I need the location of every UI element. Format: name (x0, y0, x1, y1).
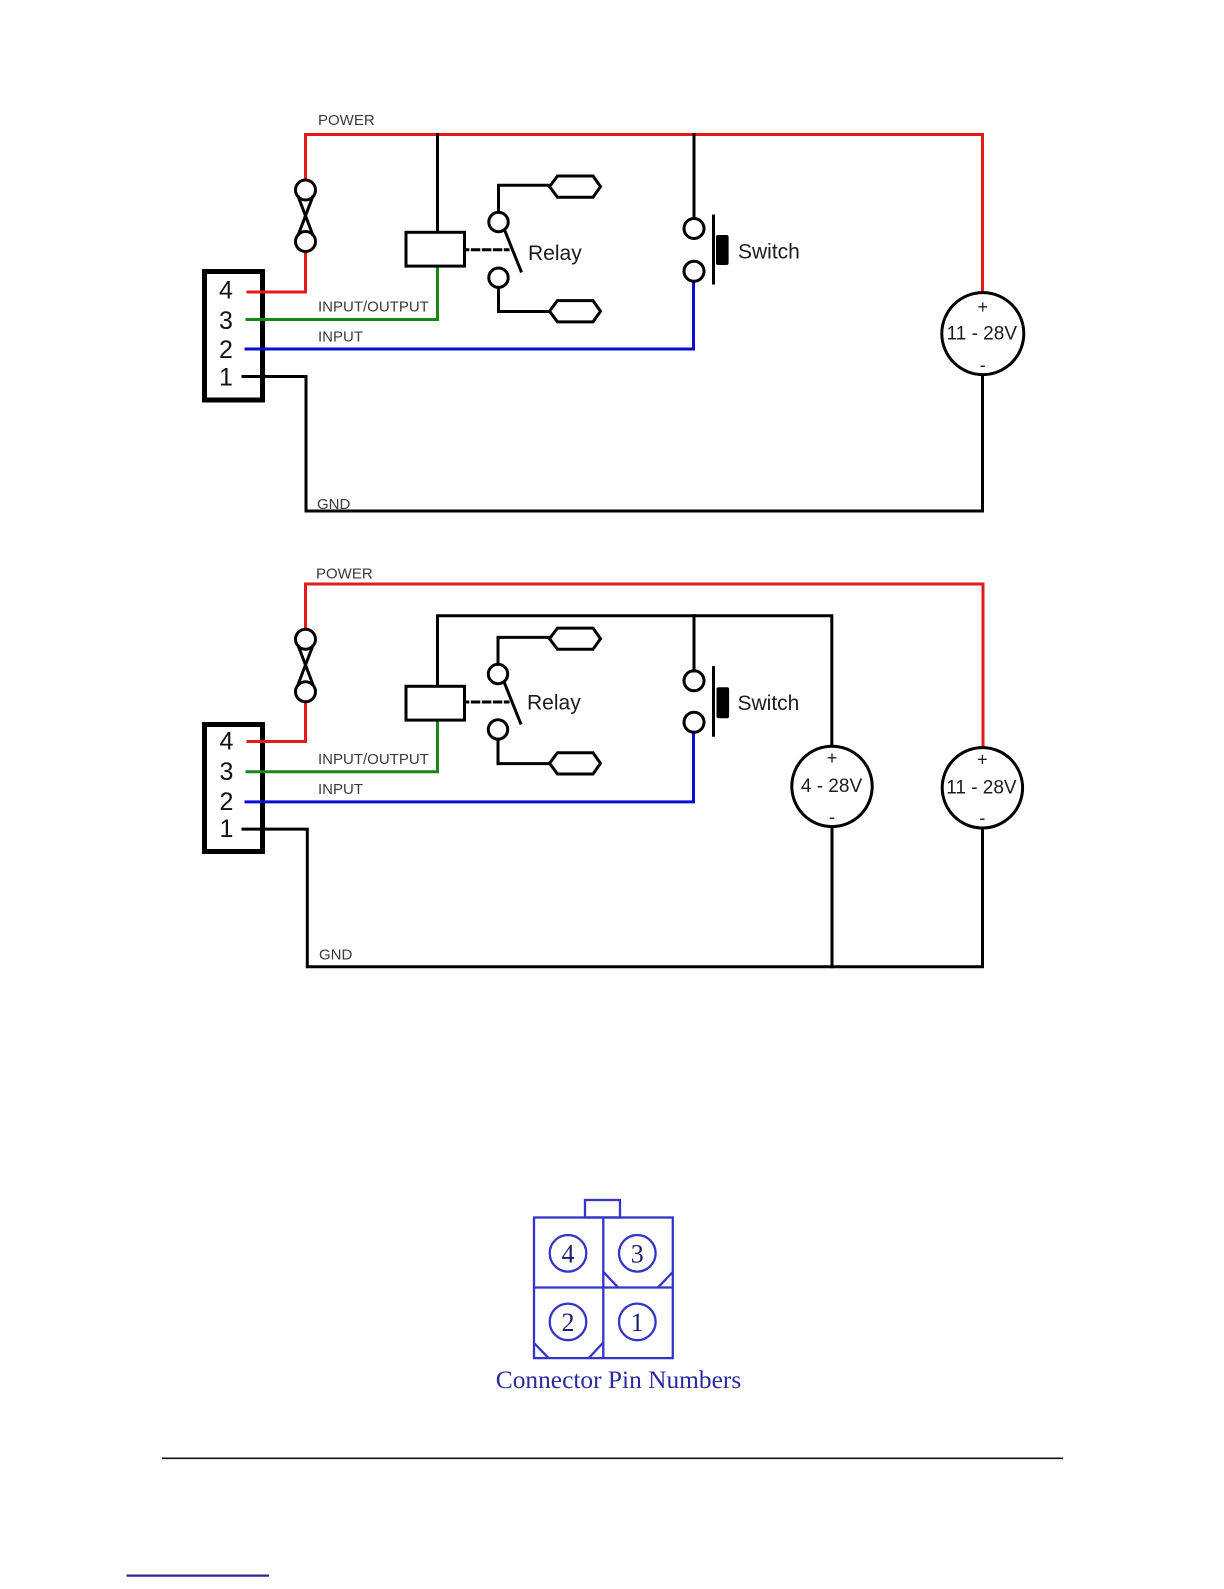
fuse F1 (296, 180, 316, 252)
pin 4 cavity circle (550, 1235, 587, 1272)
relay K2 contacts (488, 664, 520, 739)
wire relay NO contact to terminal d1 (499, 185, 550, 212)
connector face divider horizontal (534, 1286, 673, 1288)
switch S2 plunger (712, 668, 715, 736)
svg-text:2: 2 (562, 1308, 575, 1337)
wire input/output pin3 to coil (green) (247, 266, 438, 319)
switch S1 plunger d1 (712, 216, 715, 283)
wire pin4 to fuse (red) (248, 252, 306, 292)
svg-text:1: 1 (219, 364, 233, 392)
switch S2 contacts (684, 671, 704, 733)
fuse F2 (296, 629, 316, 702)
svg-text:Connector Pin Numbers: Connector Pin Numbers (496, 1366, 741, 1394)
svg-text:INPUT/OUTPUT: INPUT/OUTPUT (318, 751, 429, 768)
supply B1 11-28V d1 (942, 293, 1024, 375)
wire input pin2 to switch (blue) (246, 282, 694, 350)
wire pin1 / GND / supply return d1 (black) (243, 375, 983, 511)
connector J2 body (205, 725, 263, 852)
wire pin4 to fuse d2 (red) (248, 702, 306, 742)
wire 4-28V return d2 (black) (831, 827, 834, 967)
supply B2 4-28V (792, 746, 872, 826)
wire local bus d2 (black): coil drop, bus, drop to 4-28V (438, 616, 832, 747)
svg-text:2: 2 (220, 788, 234, 816)
svg-text:4 - 28V: 4 - 28V (801, 776, 863, 797)
svg-text:+: + (978, 297, 989, 317)
svg-text:Relay: Relay (528, 242, 582, 265)
pin 1 cavity circle (619, 1304, 656, 1341)
svg-text:2: 2 (219, 336, 233, 364)
connector face outline (534, 1218, 673, 1359)
svg-text:GND: GND (317, 496, 351, 513)
connector key tab (585, 1200, 620, 1218)
wire fuse to POWER (red) (304, 135, 307, 181)
terminal lug lower d1 (550, 301, 601, 322)
connector J1 body d1 (205, 272, 263, 401)
svg-text:3: 3 (631, 1240, 644, 1269)
svg-text:INPUT: INPUT (318, 781, 363, 798)
keying chamfer pin3 left (603, 1272, 618, 1288)
svg-text:+: + (827, 748, 838, 768)
pin 2 cavity circle (550, 1304, 587, 1341)
switch S1 contacts d1 (684, 219, 704, 282)
svg-text:INPUT: INPUT (318, 329, 363, 346)
pin 3 cavity circle (619, 1235, 656, 1272)
wire coil drop d1 (black) (436, 135, 439, 233)
keying chamfer pin3 right (658, 1272, 673, 1287)
terminal lug upper d1 (550, 176, 601, 197)
svg-text:-: - (829, 807, 835, 827)
svg-text:11 - 28V: 11 - 28V (947, 324, 1018, 345)
supply B3 11-28V d2 (942, 748, 1022, 828)
svg-text:+: + (977, 750, 988, 770)
svg-text:Relay: Relay (527, 692, 581, 715)
wire pin1 / GND / supply return d2 (black) (243, 828, 983, 967)
wire relay common contact to terminal d1 (499, 287, 550, 311)
svg-text:11 - 28V: 11 - 28V (946, 778, 1017, 799)
relay K2 linkage (dashed) (465, 701, 508, 704)
svg-text:Switch: Switch (738, 241, 800, 264)
footnote rule (blue) (127, 1574, 270, 1576)
svg-text:3: 3 (220, 758, 234, 786)
relay K1 coil d1 (406, 232, 465, 266)
wire input pin2 to switch d2 (blue) (246, 732, 694, 802)
wire switch drop d2 (black) (693, 616, 696, 671)
svg-text:INPUT/OUTPUT: INPUT/OUTPUT (318, 299, 429, 316)
svg-text:3: 3 (219, 307, 233, 335)
wire input/output pin3 to coil d2 (green) (247, 720, 438, 772)
connector face divider vertical (602, 1218, 604, 1359)
wire relay NO contact to terminal d2 (498, 637, 550, 664)
wire POWER net d2 (red) (306, 584, 984, 748)
switch S2 button (717, 687, 730, 718)
terminal lug upper d2 (550, 628, 601, 649)
svg-text:4: 4 (562, 1240, 575, 1269)
svg-text:POWER: POWER (318, 112, 375, 129)
svg-text:Switch: Switch (738, 692, 800, 715)
svg-text:-: - (979, 808, 985, 828)
relay K2 coil (406, 686, 465, 720)
wire fuse to POWER d2 (red) (304, 584, 307, 629)
wire switch drop d1 (black) (693, 135, 696, 219)
wire POWER net d1 (red) (306, 135, 983, 293)
terminal lug lower d2 (550, 753, 601, 774)
keying chamfer pin2 right (589, 1343, 604, 1359)
relay K1 linkage (dashed) d1 (465, 248, 508, 251)
svg-text:GND: GND (319, 947, 353, 964)
svg-text:4: 4 (220, 728, 234, 756)
svg-text:1: 1 (631, 1308, 644, 1337)
svg-text:-: - (980, 355, 986, 375)
wire relay common contact to terminal d2 (498, 739, 550, 763)
svg-text:4: 4 (219, 277, 233, 305)
svg-text:1: 1 (220, 815, 234, 843)
keying chamfer pin2 left (534, 1343, 549, 1358)
relay K1 contacts d1 (489, 212, 521, 287)
footer rule (162, 1457, 1063, 1459)
svg-text:POWER: POWER (316, 566, 373, 583)
switch S1 button d1 (716, 235, 729, 265)
